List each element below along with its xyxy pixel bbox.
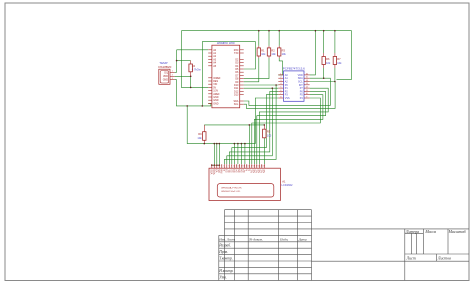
svg-text:8: 8 (280, 96, 281, 98)
svg-text:22: 22 (263, 166, 265, 168)
svg-text:R9: R9 (198, 132, 202, 136)
svg-text:10: 10 (306, 93, 308, 95)
svg-text:R6: R6 (326, 57, 330, 61)
svg-text:Arduino Uno: Arduino Uno (217, 41, 235, 45)
svg-text:Листов: Листов (437, 255, 451, 260)
svg-text:6: 6 (280, 90, 281, 92)
svg-text:4: 4 (280, 83, 281, 85)
svg-text:Изм.: Изм. (218, 237, 226, 241)
svg-text:3: 3 (172, 78, 173, 80)
svg-text:15: 15 (306, 77, 308, 79)
svg-text:9: 9 (306, 96, 307, 98)
svg-text:LCD1602: LCD1602 (282, 183, 294, 187)
svg-text:WH1602A-YYH-CTK: WH1602A-YYH-CTK (221, 187, 242, 190)
svg-text:R5: R5 (267, 130, 271, 134)
svg-text:R1: R1 (261, 48, 265, 52)
svg-text:PCF8574T/3,5,6: PCF8574T/3,5,6 (283, 66, 305, 70)
svg-text:Пров.: Пров. (218, 250, 228, 254)
svg-text:10k: 10k (282, 52, 287, 56)
svg-text:1: 1 (280, 73, 281, 75)
svg-text:3: 3 (216, 166, 217, 168)
svg-text:Подп.: Подп. (279, 237, 289, 241)
svg-text:10k: 10k (271, 52, 276, 56)
svg-text:2: 2 (280, 77, 281, 79)
svg-text:5: 5 (280, 87, 281, 89)
svg-text:9: 9 (231, 166, 232, 168)
svg-text:Разраб.: Разраб. (218, 244, 231, 248)
svg-text:DQ: DQ (164, 71, 168, 74)
svg-text:13: 13 (306, 83, 308, 85)
svg-text:1: 1 (211, 166, 212, 168)
svg-text:GND: GND (213, 102, 219, 105)
svg-text:5: 5 (221, 166, 222, 168)
svg-text:8: 8 (229, 166, 230, 168)
svg-text:10k: 10k (337, 61, 342, 65)
svg-text:SCL: SCL (234, 103, 239, 106)
svg-text:10k: 10k (197, 136, 202, 140)
svg-text:D13: D13 (234, 94, 239, 97)
svg-text:10k: 10k (261, 52, 266, 56)
svg-text:7: 7 (226, 166, 227, 168)
svg-text:16: 16 (306, 73, 308, 75)
svg-text:DS18B20: DS18B20 (158, 65, 171, 69)
svg-text:A5: A5 (213, 65, 217, 68)
svg-text:A1: A1 (282, 179, 286, 183)
svg-text:Масштаб: Масштаб (448, 229, 467, 234)
svg-text:4: 4 (219, 166, 220, 168)
svg-text:P4: P4 (300, 97, 304, 100)
svg-text:4.7kOm: 4.7kOm (192, 68, 201, 72)
svg-text:NC: NC (263, 169, 266, 173)
svg-text:2: 2 (172, 75, 173, 77)
svg-text:2: 2 (214, 166, 215, 168)
svg-text:10k: 10k (326, 61, 331, 65)
svg-text:R3: R3 (282, 48, 286, 52)
svg-text:Масса: Масса (424, 229, 436, 234)
svg-text:R2: R2 (271, 48, 275, 52)
svg-text:12: 12 (306, 87, 308, 89)
svg-text:7: 7 (280, 93, 281, 95)
svg-text:GND: GND (163, 79, 169, 82)
svg-text:№ докум.: № докум. (248, 237, 263, 241)
svg-text:100: 100 (267, 134, 272, 138)
svg-text:11: 11 (306, 90, 308, 92)
svg-text:Утв.: Утв. (219, 276, 227, 280)
svg-text:R7: R7 (337, 57, 341, 61)
svg-text:3: 3 (280, 80, 281, 82)
svg-text:Н.контр.: Н.контр. (218, 269, 233, 273)
svg-text:6: 6 (224, 166, 225, 168)
svg-text:WH1602 16x2 LCD: WH1602 16x2 LCD (221, 191, 240, 193)
svg-text:Литера: Литера (405, 229, 419, 234)
svg-text:VSS: VSS (285, 97, 290, 100)
svg-text:1: 1 (172, 71, 173, 73)
svg-text:Лист: Лист (405, 255, 415, 260)
svg-text:Лист: Лист (226, 237, 235, 241)
svg-text:Т.контр.: Т.контр. (219, 256, 233, 260)
svg-text:14: 14 (306, 80, 308, 82)
svg-text:TX0: TX0 (234, 52, 239, 55)
svg-text:Дата: Дата (298, 237, 307, 241)
